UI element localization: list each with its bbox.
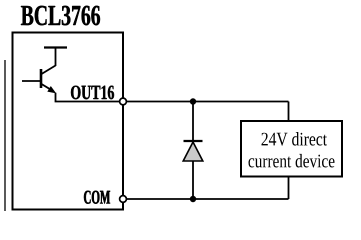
label 24V direct	[262, 132, 328, 146]
label BCL3766	[21, 6, 100, 26]
wire: bottom stub from load box	[288, 177, 290, 199]
junction on COM wire (diode anode node)	[190, 196, 196, 202]
terminal OUT16 (open circle)	[120, 98, 127, 105]
load box: 24V direct current device	[241, 121, 342, 177]
wire: top stub into load box	[288, 102, 290, 122]
junction on OUT16 wire (diode cathode node)	[190, 98, 196, 104]
wire: OUT16 to load (top rail)	[127, 101, 289, 103]
wire: emitter to OUT16 terminal	[56, 93, 120, 102]
IC box BCL3766	[13, 33, 124, 210]
label COM	[84, 191, 110, 204]
label OUT16	[71, 86, 114, 100]
transistor Q1 (NPN output)	[22, 48, 67, 94]
diode D1 (flyback, cathode up)	[183, 102, 203, 200]
wire: COM to load (bottom rail)	[127, 198, 289, 200]
label current device	[249, 154, 335, 168]
terminal COM (open circle)	[120, 196, 127, 203]
wire: adjacent channel cropped at left edge	[4, 60, 6, 211]
